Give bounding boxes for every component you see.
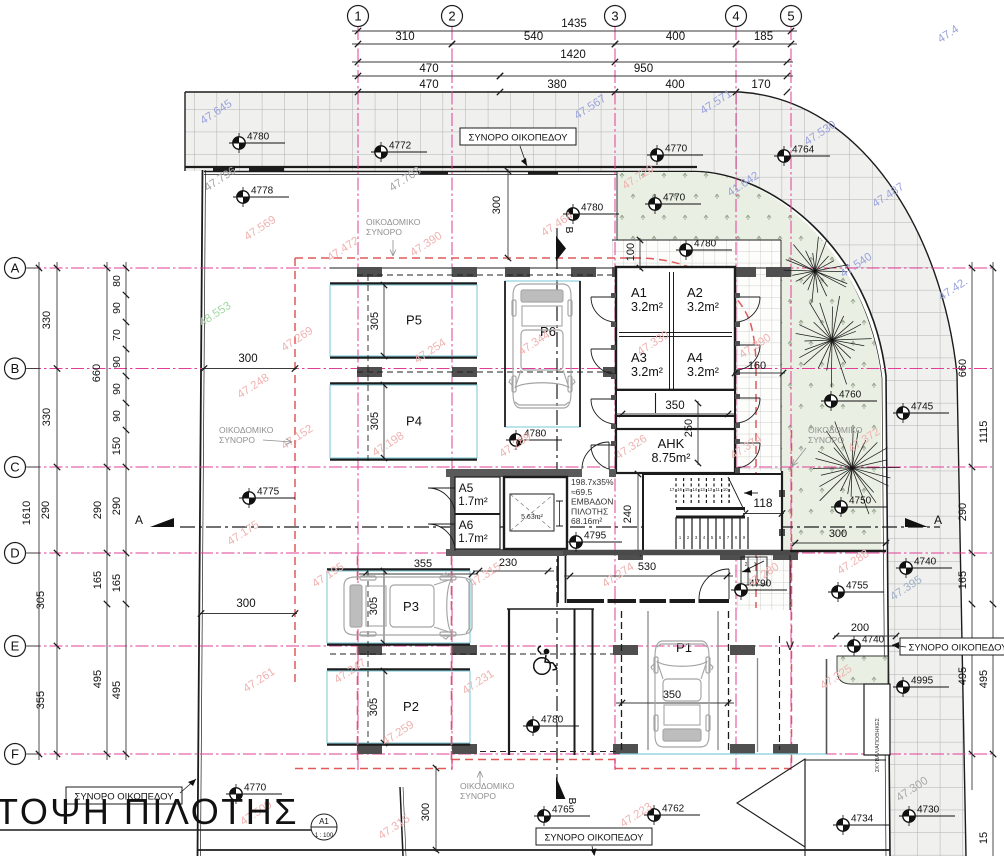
svg-text:A: A (934, 513, 942, 527)
svg-text:1.7m²: 1.7m² (458, 533, 488, 545)
svg-text:4745: 4745 (911, 402, 934, 413)
svg-text:ΣΥΝΟΡΟ: ΣΥΝΟΡΟ (460, 791, 496, 801)
svg-text:P3: P3 (403, 599, 419, 614)
svg-text:4778: 4778 (251, 186, 274, 197)
svg-text:A4: A4 (687, 350, 703, 365)
svg-text:8.75m²: 8.75m² (652, 451, 691, 465)
svg-text:C: C (10, 460, 19, 475)
svg-text:300: 300 (238, 353, 257, 365)
svg-text:16: 16 (677, 487, 682, 492)
svg-text:350: 350 (665, 400, 684, 412)
svg-text:E: E (11, 639, 20, 654)
svg-text:4762: 4762 (662, 804, 685, 815)
svg-text:380: 380 (547, 79, 566, 91)
svg-text:185: 185 (754, 31, 773, 43)
svg-text:ΣΥΝΟΡΟ ΟΙΚΟΠΕΔΟΥ: ΣΥΝΟΡΟ ΟΙΚΟΠΕΔΟΥ (468, 133, 568, 144)
svg-text:355: 355 (35, 691, 47, 709)
svg-text:A1: A1 (631, 285, 647, 300)
svg-text:350: 350 (663, 689, 681, 701)
svg-text:68.16m²: 68.16m² (571, 516, 602, 526)
svg-text:4765: 4765 (552, 805, 575, 816)
svg-text:290: 290 (957, 503, 969, 521)
svg-text:305: 305 (368, 597, 380, 615)
svg-text:310: 310 (395, 31, 414, 43)
svg-text:4772: 4772 (389, 141, 412, 152)
svg-text:1.7m²: 1.7m² (458, 496, 488, 508)
svg-text:ΣΥΝΟΡΟ ΟΙΚΟΠΕΔΟΥ: ΣΥΝΟΡΟ ΟΙΚΟΠΕΔΟΥ (544, 833, 644, 844)
svg-text:ΕΜΒΑΔΟΝ: ΕΜΒΑΔΟΝ (571, 497, 613, 507)
svg-text:305: 305 (369, 312, 381, 330)
svg-text:4775: 4775 (257, 487, 280, 498)
svg-text:1: 1 (354, 9, 361, 24)
svg-text:A1: A1 (319, 817, 329, 826)
svg-text:470: 470 (419, 63, 438, 75)
svg-text:12: 12 (708, 487, 713, 492)
svg-text:15: 15 (978, 832, 990, 844)
svg-text:300: 300 (420, 803, 432, 821)
svg-text:4730: 4730 (917, 805, 940, 816)
svg-text:4795: 4795 (584, 531, 607, 542)
svg-text:495: 495 (978, 670, 990, 688)
svg-text:950: 950 (634, 63, 653, 75)
svg-text:2: 2 (745, 562, 748, 568)
svg-text:ΣΥΝΟΡΟ ΟΙΚΟΠΕΔΟΥ: ΣΥΝΟΡΟ ΟΙΚΟΠΕΔΟΥ (908, 643, 1004, 654)
svg-text:4: 4 (732, 9, 739, 24)
svg-text:1420: 1420 (560, 49, 586, 61)
svg-text:3: 3 (611, 9, 618, 24)
svg-text:4770: 4770 (665, 144, 688, 155)
svg-text:4770: 4770 (663, 193, 686, 204)
svg-text:198.7x35%: 198.7x35% (571, 477, 614, 487)
svg-text:ΠΙΛΟΤΗΣ: ΠΙΛΟΤΗΣ (571, 506, 608, 516)
svg-text:250: 250 (683, 419, 695, 437)
svg-text:4740: 4740 (914, 557, 937, 568)
svg-text:165: 165 (111, 574, 123, 592)
svg-text:5: 5 (787, 9, 794, 24)
svg-text:B: B (11, 361, 20, 376)
svg-text:3.2m²: 3.2m² (687, 365, 719, 379)
svg-text:4995: 4995 (911, 676, 934, 687)
svg-text:200: 200 (851, 622, 869, 634)
svg-text:A6: A6 (459, 518, 474, 532)
svg-text:V: V (786, 639, 794, 653)
svg-text:4740: 4740 (862, 635, 885, 646)
svg-text:11: 11 (715, 487, 720, 492)
svg-text:300: 300 (829, 528, 847, 540)
svg-text:4734: 4734 (851, 814, 874, 825)
svg-text:1115: 1115 (978, 421, 990, 444)
svg-text:80: 80 (111, 275, 123, 287)
svg-text:10: 10 (723, 487, 728, 492)
svg-text:660: 660 (91, 364, 103, 382)
svg-text:1610: 1610 (21, 501, 33, 525)
svg-text:P4: P4 (406, 414, 422, 429)
svg-text:290: 290 (40, 501, 52, 519)
svg-text:90: 90 (111, 383, 123, 395)
svg-text:15: 15 (685, 487, 690, 492)
svg-text:330: 330 (41, 408, 53, 426)
svg-text:ΟΙΚΟΔΟΜΙΚΟ: ΟΙΚΟΔΟΜΙΚΟ (366, 217, 421, 227)
svg-text:170: 170 (751, 79, 770, 91)
svg-text:305: 305 (369, 412, 381, 430)
svg-text:4780: 4780 (581, 203, 604, 214)
svg-text:ΟΙΚΟΔΟΜΙΚΟ: ΟΙΚΟΔΟΜΙΚΟ (808, 425, 863, 435)
svg-text:ΣΥΝΟΡΟ: ΣΥΝΟΡΟ (808, 435, 844, 445)
svg-text:4780: 4780 (694, 239, 717, 250)
svg-text:ΣΥΝΟΡΟ: ΣΥΝΟΡΟ (219, 435, 255, 445)
svg-text:160: 160 (748, 360, 766, 372)
svg-text:P1: P1 (676, 640, 692, 655)
svg-text:300: 300 (491, 196, 503, 214)
svg-text:530: 530 (638, 561, 656, 573)
svg-text:540: 540 (524, 31, 543, 43)
svg-text:A5: A5 (459, 481, 474, 495)
svg-text:470: 470 (419, 79, 438, 91)
svg-text:A: A (135, 513, 143, 527)
svg-text:400: 400 (665, 79, 684, 91)
svg-text:660: 660 (957, 359, 969, 377)
svg-text:ΟΙΚΟΔΟΜΙΚΟ: ΟΙΚΟΔΟΜΙΚΟ (219, 425, 274, 435)
svg-text:4750: 4750 (849, 496, 872, 507)
svg-text:4755: 4755 (846, 581, 869, 592)
svg-text:P5: P5 (406, 313, 422, 328)
svg-text:230: 230 (499, 557, 517, 569)
svg-text:150: 150 (111, 437, 123, 455)
svg-text:2: 2 (448, 9, 455, 24)
svg-text:13: 13 (700, 487, 705, 492)
svg-text:ΤΟΨΗ ΠΙΛΟΤΗΣ: ΤΟΨΗ ΠΙΛΟΤΗΣ (0, 791, 299, 832)
svg-text:90: 90 (111, 302, 123, 314)
svg-text:3.2m²: 3.2m² (631, 365, 663, 379)
svg-text:495: 495 (957, 667, 969, 685)
svg-text:P2: P2 (403, 699, 419, 714)
svg-text:A: A (11, 261, 20, 276)
svg-text:330: 330 (41, 311, 53, 329)
svg-text:290: 290 (111, 497, 123, 515)
svg-text:1435: 1435 (561, 18, 587, 30)
svg-text:165: 165 (957, 571, 969, 589)
svg-text:AHK: AHK (658, 436, 685, 451)
svg-text:90: 90 (111, 410, 123, 422)
svg-text:3.2m²: 3.2m² (687, 300, 719, 314)
svg-text:305: 305 (368, 698, 380, 716)
svg-text:B: B (563, 226, 575, 233)
svg-text:355: 355 (414, 558, 432, 570)
svg-text:100: 100 (625, 243, 637, 261)
svg-text:B: B (566, 797, 578, 804)
svg-text:70: 70 (111, 329, 123, 341)
svg-text:300: 300 (236, 598, 255, 610)
svg-text:1 : 100: 1 : 100 (315, 833, 334, 839)
svg-text:≈69.5: ≈69.5 (571, 487, 592, 497)
svg-text:17: 17 (670, 487, 675, 492)
svg-text:3.2m²: 3.2m² (631, 300, 663, 314)
svg-text:495: 495 (111, 681, 123, 699)
svg-text:14: 14 (692, 487, 697, 492)
svg-text:90: 90 (111, 356, 123, 368)
svg-text:4780: 4780 (541, 715, 564, 726)
svg-text:ΟΙΚΟΔΟΜΙΚΟ: ΟΙΚΟΔΟΜΙΚΟ (460, 781, 515, 791)
svg-text:F: F (11, 747, 19, 762)
svg-text:240: 240 (622, 505, 634, 523)
svg-text:5.63m²: 5.63m² (521, 514, 543, 521)
svg-text:4760: 4760 (839, 390, 862, 401)
svg-text:305: 305 (35, 591, 47, 609)
svg-text:4780: 4780 (247, 132, 270, 143)
svg-text:290: 290 (92, 501, 104, 519)
svg-text:400: 400 (666, 31, 685, 43)
svg-text:ΣΚΥΒΑΛ/ΑΠΟΘΗΚΕΣ: ΣΚΥΒΑΛ/ΑΠΟΘΗΚΕΣ (875, 717, 881, 772)
svg-text:ΣΥΝΟΡΟ: ΣΥΝΟΡΟ (366, 227, 402, 237)
svg-text:495: 495 (92, 670, 104, 688)
svg-text:A2: A2 (687, 285, 703, 300)
svg-text:118: 118 (753, 496, 772, 510)
svg-text:D: D (10, 546, 19, 561)
svg-text:165: 165 (92, 571, 104, 589)
